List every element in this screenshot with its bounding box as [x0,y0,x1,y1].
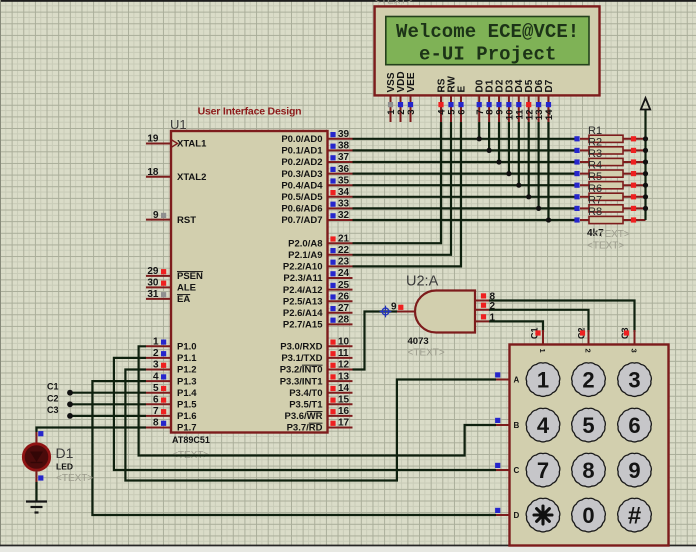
junction D4/P0.4 [516,183,521,188]
svg-text:P2.7/A15: P2.7/A15 [283,320,323,331]
U2:A designator [406,274,439,290]
wire U2:A pin 1 to keypad column 1 [489,321,543,332]
keypad column 1 pin / net C1 [530,327,544,344]
svg-text:15: 15 [338,395,350,406]
svg-text:R6: R6 [588,183,602,195]
svg-text:P2.2/A10: P2.2/A10 [283,262,323,273]
svg-text:P1.0: P1.0 [177,342,197,353]
wire P1.3 to keypad row D [92,381,496,515]
keypad column 2 pin / net C2 [577,327,589,344]
svg-text:19: 19 [147,134,159,145]
LCD pin 1 (VSS) [386,72,397,122]
U1 pin 8 P1.7 [146,418,197,434]
keypad button 2 [572,363,606,397]
svg-text:14: 14 [544,109,555,120]
svg-text:33: 33 [338,199,350,210]
wire P1.1 to keypad row C [114,358,496,470]
U1 pin 13 P3.3 [280,371,353,387]
wire U2:A pin 8 to keypad column 3 [489,301,635,333]
LCD pin 5 (RW) [446,75,457,122]
svg-text:P0.6/AD6: P0.6/AD6 [281,204,322,215]
U1 <TEXT> label [172,450,209,461]
svg-text:26: 26 [338,291,350,302]
wire P0.3 bus to resistor R4 [353,173,578,175]
svg-text:<TEXT>: <TEXT> [587,241,624,252]
U2:A pin 8 input [475,292,496,303]
keypad button 8 [572,453,606,487]
junction D6/P0.6 [536,206,541,211]
wire LCD D2 drop [498,122,500,162]
U1 pin 9 RST [146,210,196,226]
junction rail R1 [643,136,648,141]
junction D1/P0.1 [487,148,492,153]
keypad row B pin [495,418,519,430]
wire P1.4 net C1 [70,392,146,394]
svg-text:E: E [456,86,467,93]
node label C3 [47,405,59,415]
svg-text:1: 1 [538,349,547,353]
svg-text:3: 3 [153,360,159,371]
junction node C2 [67,401,73,407]
svg-text:37: 37 [338,152,350,163]
svg-text:3: 3 [630,349,639,353]
svg-text:P3.3/INT1: P3.3/INT1 [280,376,323,387]
svg-text:2: 2 [584,349,593,353]
U2:A pin 2 input [475,301,496,312]
LCD screen [386,17,589,65]
resistor R5 [574,171,645,189]
svg-text:XTAL2: XTAL2 [177,172,206,183]
svg-text:#: # [628,502,641,529]
svg-text:D7: D7 [544,79,555,92]
svg-text:P3.5/T1: P3.5/T1 [289,400,323,411]
resistor <TEXT> label [593,229,630,240]
svg-text:31: 31 [147,289,159,300]
svg-text:11: 11 [338,348,349,359]
svg-text:25: 25 [338,280,350,291]
U1 pin 28 P2.7 [283,315,353,331]
keypad button 1 [526,363,560,397]
U1 pin 27 P2.6 [283,303,353,319]
junction rail R4 [643,171,648,176]
U1 pin 29 PSEN [146,266,203,282]
svg-text:24: 24 [338,268,350,279]
keypad button 3 [618,363,652,397]
U1 AT89C51 body [171,131,328,433]
LCD pin 11 (D4) [514,79,525,122]
svg-text:2: 2 [153,348,159,359]
LCD pin 13 (D6) [534,79,545,122]
U1 pin 3 P1.2 [146,360,197,376]
svg-text:P2.0/A8: P2.0/A8 [288,238,322,249]
U1 pin 32 P0.7 [281,210,352,226]
U1 pin 35 P0.4 [281,175,352,191]
wire P0.5 bus to resistor R6 [353,196,578,198]
U1 pin 15 P3.5 [289,395,352,411]
svg-text:12: 12 [338,360,350,371]
LCD pin 14 (D7) [544,79,555,122]
U1 pin 16 P3.6 [284,406,352,422]
svg-text:13: 13 [338,371,350,382]
svg-text:1: 1 [537,367,549,392]
svg-text:R2: R2 [588,136,602,148]
keypad button 4 [526,408,560,442]
window left border [0,0,1,552]
svg-text:P0.2/AD2: P0.2/AD2 [281,157,322,168]
U1 pin 30 ALE [146,278,196,294]
node label C1 [47,382,59,392]
svg-text:P3.0/RXD: P3.0/RXD [280,342,322,353]
svg-text:6: 6 [628,413,640,438]
U2:A pin 9 output stub [391,302,416,313]
keypad button 0 [572,498,606,532]
svg-text:P2.5/A13: P2.5/A13 [283,296,323,307]
junction D3/P0.3 [506,171,511,176]
svg-text:18: 18 [147,167,159,178]
junction rail R6 [643,194,648,199]
svg-text:PSEN: PSEN [177,271,203,282]
svg-text:e-UI Project: e-UI Project [419,44,556,66]
svg-text:Welcome ECE@VCE!: Welcome ECE@VCE! [396,21,579,43]
resistor R6 [574,183,645,201]
svg-text:9: 9 [628,458,640,483]
junction node C1 [67,390,73,396]
svg-text:ALE: ALE [177,283,196,294]
keypad body [510,345,669,546]
svg-text:7: 7 [153,406,159,417]
wire LCD D1 drop [488,122,490,150]
LCD LM016L body [375,6,600,95]
wire P1.6 net C3 [70,415,146,417]
keypad row C pin [495,463,519,475]
keypad row D pin [495,508,519,520]
D1 <TEXT> label [56,473,93,484]
keypad column label 2 [584,349,593,353]
svg-text:P0.1/AD1: P0.1/AD1 [281,146,323,157]
svg-text:0: 0 [582,503,594,528]
wire LCD D0 drop [478,122,480,139]
U1 pin 5 P1.4 [146,383,197,399]
svg-text:LED: LED [56,462,73,472]
svg-text:P3.6/WR: P3.6/WR [284,411,322,422]
U1 pin 17 P3.7 [287,418,353,434]
svg-text:P1.1: P1.1 [177,353,197,364]
svg-text:P1.3: P1.3 [177,376,197,387]
keypad column 3 pin / net C3 [620,327,635,344]
svg-text:3: 3 [628,367,640,392]
LCD pin 12 (D5) [524,79,535,122]
wire LCD D6 drop [537,122,539,208]
U1 pin 6 P1.5 [146,395,197,411]
wire U2:A pin 2 to keypad column 2 [489,310,589,332]
svg-text:P3.7/RD: P3.7/RD [287,423,323,434]
svg-text:27: 27 [338,303,350,314]
svg-text:P0.5/AD5: P0.5/AD5 [281,192,323,203]
keypad column label 3 [630,349,639,353]
wire P1.0 to keypad row B [139,346,496,455]
LCD pin 6 (E) [456,86,467,123]
wire P0.2 bus to resistor R3 [353,161,578,163]
U1 pin 25 P2.4 [283,280,353,296]
D1 value LED [56,462,73,472]
keypad button # [618,498,652,532]
U1 pin 14 P3.4 [289,383,352,399]
svg-text:R8: R8 [588,206,602,218]
svg-text:34: 34 [338,187,350,198]
wire U2:A output to P3.2/INT0 [353,312,398,370]
U1 pin 19 XTAL1 [146,134,207,150]
svg-text:P3.4/T0: P3.4/T0 [289,388,322,399]
svg-text:P2.3/A11: P2.3/A11 [283,273,323,284]
U1 pin 38 P0.1 [281,141,352,157]
keypad button 5 [572,408,606,442]
U1 pin 2 P1.1 [146,348,197,364]
U1 pin 22 P2.1 [288,245,352,261]
svg-text:VEE: VEE [406,72,417,92]
U1 pin 21 P2.0 [288,233,352,249]
keypad button * [526,498,560,532]
wire P0.6 bus to resistor R7 [353,207,578,209]
junction D0/P0.0 [477,136,482,141]
svg-text:User Interface Design: User Interface Design [198,106,302,118]
svg-text:R1: R1 [588,125,602,137]
U1 pin 33 P0.6 [281,199,352,215]
svg-text:23: 23 [338,257,350,268]
U1 value AT89C51 [172,435,210,445]
power arrow VCC [641,98,650,110]
LCD text line 1 [396,21,579,43]
ground [26,502,47,513]
svg-text:C2: C2 [47,393,59,403]
svg-text:B: B [514,421,520,430]
keypad button 6 [618,408,652,442]
wire P0.1 bus to resistor R2 [353,149,578,151]
svg-text:P0.4/AD4: P0.4/AD4 [281,180,323,191]
resistor R7 [574,194,645,212]
svg-text:8: 8 [153,418,159,429]
title: User Interface Design [198,106,302,118]
LED D1 [23,431,49,482]
U1 pin 4 P1.3 [146,371,197,387]
svg-text:5: 5 [582,413,594,438]
svg-text:P1.2: P1.2 [177,365,197,376]
U1 pin 26 P2.5 [283,291,353,307]
resistor R8 [574,206,645,224]
wire LED to ground [35,482,37,502]
svg-text:P0.0/AD0: P0.0/AD0 [281,134,322,145]
wire P0.7 bus to resistor R8 [353,219,578,221]
wire LCD D7 drop [547,122,549,220]
svg-text:3: 3 [406,110,417,115]
junction D2/P0.2 [496,159,501,164]
svg-text:U2:A: U2:A [406,274,439,290]
LCD pin 8 (D1) [485,79,496,122]
svg-text:28: 28 [338,315,350,326]
keypad button 7 [526,453,560,487]
resistor R3 [574,148,645,166]
keypad column label 1 [538,349,547,353]
svg-text:P1.7: P1.7 [177,423,197,434]
svg-text:A: A [514,375,520,384]
svg-text:<TEXT>: <TEXT> [593,229,630,240]
wire LCD D5 drop [528,122,530,197]
resistor <TEXT> label 2 [587,241,624,252]
U1 pin 23 P2.2 [283,257,353,273]
svg-text:16: 16 [338,406,350,417]
svg-text:4: 4 [537,413,550,438]
wire P0.0 bus to resistor R1 [353,138,578,140]
U1 pin 37 P0.2 [281,152,352,168]
svg-text:29: 29 [147,266,159,277]
U1 pin 7 P1.6 [146,406,197,422]
LCD pin 9 (D2) [494,79,505,122]
svg-text:P2.4/A12: P2.4/A12 [283,285,323,296]
svg-text:EA: EA [177,294,190,305]
keypad button 9 [618,453,652,487]
D1 designator [56,445,74,461]
svg-text:4073: 4073 [408,336,429,347]
junction D7/P0.7 [546,217,551,222]
svg-text:4: 4 [153,371,159,382]
svg-text:35: 35 [338,175,350,186]
svg-text:P1.6: P1.6 [177,411,197,422]
svg-text:R7: R7 [588,194,602,206]
svg-text:21: 21 [338,233,350,244]
U1 pin 36 P0.3 [281,164,352,180]
svg-text:AT89C51: AT89C51 [172,435,210,445]
U1 pin 18 XTAL2 [146,167,206,183]
svg-text:D: D [514,511,520,520]
LCD LM016L label <TEXT> [375,0,412,7]
svg-text:22: 22 [338,245,350,256]
svg-text:30: 30 [147,278,159,289]
svg-text:D1: D1 [56,445,74,461]
junction node C3 [67,413,73,419]
junction rail R2 [643,148,648,153]
U2:A value 4073 [408,336,429,347]
svg-text:2: 2 [582,367,594,392]
svg-text:39: 39 [338,129,350,140]
U1 clock marker XTAL1 [171,140,178,148]
wire LCD E to P2.2 [353,122,462,266]
junction rail R7 [643,206,648,211]
LCD pin 2 (VDD) [396,71,407,122]
svg-text:P1.4: P1.4 [177,388,197,399]
wire P0.4 bus to resistor R5 [353,184,578,186]
svg-text:36: 36 [338,164,350,175]
U1 pin 1 P1.0 [146,337,197,353]
wire LCD RW to P2.1 [353,122,452,255]
svg-text:P1.5: P1.5 [177,400,197,411]
U1 pin 24 P2.3 [283,268,352,284]
svg-text:P0.7/AD7: P0.7/AD7 [281,215,322,226]
svg-text:R3: R3 [588,148,602,160]
LCD pin 7 (D0) [475,79,486,122]
svg-text:9: 9 [153,210,159,221]
svg-text:6: 6 [153,395,159,406]
resistor value 4k7 [587,228,604,239]
svg-text:C3: C3 [47,405,59,415]
op-amp U2:A body (AND gate 4073) [415,291,475,333]
resistor R1 [574,125,645,143]
wire LCD D3 drop [508,122,510,174]
wire P1.2 to keypad row A [125,370,496,481]
U1 pin 34 P0.5 [281,187,352,203]
svg-text:P2.6/A14: P2.6/A14 [283,308,323,319]
node marker (origin) on INT0 wire [380,306,392,318]
svg-text:R4: R4 [588,160,602,172]
LCD pin 3 (VEE) [406,72,417,122]
svg-text:1: 1 [153,337,159,348]
window bottom border [0,545,696,552]
U1 pin 39 P0.0 [281,129,352,145]
junction D5/P0.5 [526,194,531,199]
U2:A pin 1 input [475,312,496,323]
svg-text:XTAL1: XTAL1 [177,139,207,150]
svg-text:14: 14 [338,383,350,394]
svg-text:5: 5 [153,383,159,394]
svg-text:38: 38 [338,141,350,152]
svg-text:P2.1/A9: P2.1/A9 [288,250,322,261]
junction rail R3 [643,159,648,164]
wire LCD RS to P2.0 [353,122,442,243]
resistor R4 [574,160,645,178]
window top border [0,0,696,2]
wire P1.7 to LED D1 [37,428,147,433]
power rail [644,109,646,220]
svg-text:R5: R5 [588,171,602,183]
svg-text:P3.1/TXD: P3.1/TXD [281,353,322,364]
svg-text:7: 7 [537,458,549,483]
svg-text:17: 17 [338,418,350,429]
resistor R2 [574,136,645,154]
svg-text:6: 6 [457,110,468,115]
LCD pin 4 (RS) [436,78,447,122]
U2:A <TEXT> label [408,348,445,359]
wire LCD D4 drop [518,122,520,185]
svg-text:<TEXT>: <TEXT> [56,473,93,484]
svg-text:C1: C1 [47,382,59,392]
svg-text:C: C [514,466,520,475]
U1 pin 10 P3.0 [280,337,352,353]
svg-text:32: 32 [338,210,350,221]
svg-text:8: 8 [582,458,594,483]
U1 pin 31 EA [146,289,190,305]
U1 pin 12 P3.2 [280,360,353,376]
U1 pin 11 P3.1 [281,348,352,364]
svg-text:RST: RST [177,215,196,226]
junction rail R5 [643,183,648,188]
svg-text:P0.3/AD3: P0.3/AD3 [281,169,322,180]
svg-text:P3.2/INT0: P3.2/INT0 [280,365,323,376]
svg-text:U1: U1 [170,117,187,132]
keypad row A pin [495,372,519,384]
wire P1.5 net C2 [70,403,146,405]
LCD pin 10 (D3) [504,79,515,122]
node label C2 [47,393,59,403]
LCD text line 2 [419,44,556,66]
svg-text:<TEXT>: <TEXT> [408,348,445,359]
U1 designator [170,117,187,132]
svg-text:10: 10 [338,337,350,348]
